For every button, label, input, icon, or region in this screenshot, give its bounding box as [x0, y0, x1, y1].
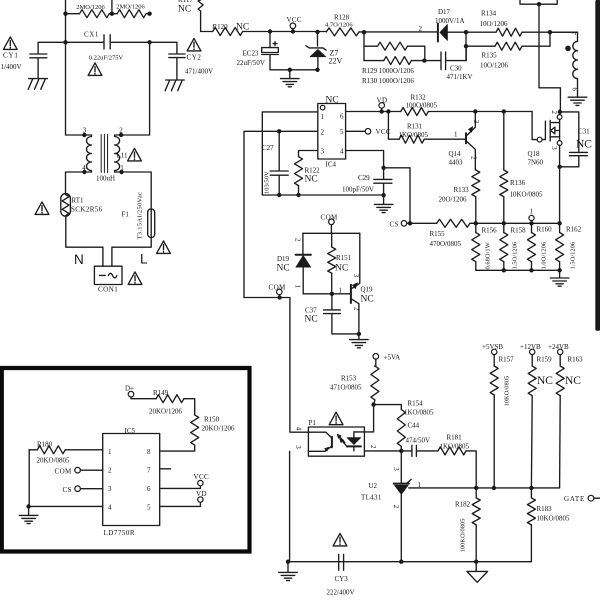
svg-text:C30: C30 — [450, 65, 462, 73]
wire right column to L11 pin2 — [121, 42, 150, 135]
capacitor CX1 — [66, 35, 150, 49]
svg-text:VCC: VCC — [287, 16, 302, 24]
svg-text:4: 4 — [82, 164, 86, 172]
warning triangle CY1 — [3, 37, 17, 50]
svg-text:20KO/1206: 20KO/1206 — [149, 408, 183, 416]
svg-text:0.22uF/275V: 0.22uF/275V — [89, 55, 124, 62]
wire COM to P1 pin4 — [244, 298, 308, 433]
svg-text:D19: D19 — [277, 255, 290, 263]
wire D19 bottom row — [303, 293, 350, 295]
svg-text:R159: R159 — [537, 356, 553, 364]
svg-text:NC: NC — [361, 295, 374, 305]
wire bottom bus — [288, 561, 531, 563]
resistor R180 20KO/0805 — [29, 449, 37, 451]
ground (earth) bottom left — [287, 562, 289, 573]
capacitor CY2 — [150, 42, 185, 80]
svg-text:CX1: CX1 — [84, 31, 99, 39]
svg-text:CY3: CY3 — [335, 575, 349, 583]
svg-text:R153: R153 — [341, 375, 357, 383]
svg-text:100O/0805: 100O/0805 — [406, 102, 438, 110]
svg-text:EC23: EC23 — [243, 50, 259, 58]
ground (slanted) CY1 — [28, 79, 47, 90]
warning triangle CY3 — [333, 533, 347, 546]
ground (earth) under C29 — [383, 195, 385, 204]
svg-text:VD: VD — [196, 490, 207, 498]
capacitor C29 100pF/50V + pin4 wire — [346, 151, 384, 168]
svg-text:T3.15AI/250Vac: T3.15AI/250Vac — [137, 192, 144, 240]
svg-text:R134: R134 — [481, 10, 497, 18]
capacitor CY1 — [30, 42, 66, 78]
svg-text:R151: R151 — [336, 254, 352, 262]
resistor R154 1KO/0805 — [374, 405, 402, 410]
current sense bus — [476, 222, 560, 224]
resistor R162 1.5O/1206 — [559, 223, 561, 232]
svg-text:R160: R160 — [537, 226, 553, 234]
transistor Q19 NC — [350, 285, 352, 303]
svg-text:VCC: VCC — [194, 473, 210, 481]
primary winding stub (cut at top) — [520, 0, 557, 4]
warning triangle RT1 — [35, 202, 49, 215]
svg-text:1KO/0805: 1KO/0805 — [404, 409, 434, 417]
node COM (top) — [329, 219, 335, 225]
svg-text:R150: R150 — [204, 416, 220, 424]
wire RT1 to CON1 left pin — [66, 216, 103, 266]
node CS — [401, 221, 407, 227]
svg-text:2: 2 — [108, 467, 112, 475]
ground (earth) sense bus — [559, 270, 561, 278]
wire left column top — [65, 0, 67, 42]
capacitor C27 103/50V — [270, 131, 288, 195]
svg-text:VD: VD — [377, 97, 388, 105]
svg-text:R180: R180 — [37, 441, 53, 449]
transistor Q14 4403 — [465, 133, 467, 143]
junction dots 2MO row — [63, 12, 67, 16]
svg-text:Q14: Q14 — [449, 150, 462, 158]
svg-text:C37: C37 — [305, 307, 317, 315]
svg-text:1000V/1A: 1000V/1A — [435, 17, 465, 25]
resistor (cut at top) NC — [198, 0, 203, 32]
svg-text:IC5: IC5 — [125, 427, 136, 435]
svg-text:5: 5 — [147, 504, 151, 512]
wire R153 to LED anode — [354, 405, 374, 432]
svg-text:CY2: CY2 — [187, 54, 202, 62]
svg-text:10KO/0805: 10KO/0805 — [504, 376, 511, 407]
svg-text:2: 2 — [369, 445, 377, 449]
svg-text:R132: R132 — [411, 94, 427, 102]
svg-text:3: 3 — [108, 485, 112, 493]
diode D19 NC — [302, 233, 304, 254]
wire pin5 to node VD — [160, 502, 201, 506]
resistor R135 10O/1206 — [466, 32, 550, 60]
svg-text:1.5O/1206: 1.5O/1206 — [512, 241, 519, 269]
ground (earth) IC5 — [28, 506, 30, 515]
svg-text:R128: R128 — [334, 14, 350, 22]
wire TL431 ref bus — [409, 487, 560, 489]
svg-text:P1: P1 — [309, 419, 317, 427]
wire IC4 pin6 to VD row — [346, 111, 401, 113]
wire IC4 pin1 — [262, 112, 318, 195]
svg-text:COM: COM — [321, 214, 339, 222]
svg-text:R181: R181 — [447, 434, 463, 442]
svg-text:1: 1 — [108, 448, 112, 456]
resistor R136 10KO/0805 — [503, 112, 505, 171]
wire IC4 pin3 + resistor R122 NC — [299, 151, 318, 157]
LED inside P1 — [347, 438, 361, 445]
warning triangle CON1 — [128, 272, 142, 285]
svg-text:1: 1 — [321, 113, 325, 121]
wire pin6 to node VCC — [160, 486, 201, 489]
svg-text:RT1: RT1 — [72, 197, 85, 205]
svg-text:GATE: GATE — [564, 495, 585, 503]
node VD — [379, 103, 385, 109]
svg-text:R155: R155 — [430, 230, 446, 238]
resistor R156 0.68O/1W — [475, 223, 477, 232]
svg-text:2: 2 — [470, 156, 478, 160]
op-amp IC4 — [318, 104, 346, 160]
svg-text:3: 3 — [83, 127, 87, 135]
ground (slanted) CY2 — [165, 80, 184, 91]
resistor R134 10O/1206 — [466, 31, 578, 33]
detail box frame — [2, 368, 250, 552]
diode D17 1000V/1A — [437, 24, 439, 42]
svg-text:4.7O/1206: 4.7O/1206 — [325, 22, 353, 29]
wire pin7 stub — [160, 468, 171, 470]
svg-text:LD7750R: LD7750R — [104, 529, 136, 537]
svg-text:R182: R182 — [455, 501, 471, 509]
svg-text:CON1: CON1 — [98, 286, 118, 294]
svg-text:6: 6 — [147, 485, 151, 493]
svg-text:20KO/0805: 20KO/0805 — [37, 457, 71, 465]
wire C29 top to CS node — [384, 168, 410, 224]
svg-text:R157: R157 — [499, 356, 515, 364]
svg-text:C44: C44 — [408, 422, 420, 430]
svg-text:3: 3 — [321, 148, 325, 156]
svg-text:L: L — [140, 252, 148, 267]
resistor R155 470O/0805 — [410, 222, 437, 224]
capacitor C30 471/1KV — [424, 46, 466, 69]
svg-text:R158: R158 — [511, 227, 527, 235]
wire L11 pin4 to RT1 — [66, 172, 85, 194]
capacitor CY3 222/400V — [339, 554, 344, 570]
svg-text:R156: R156 — [482, 227, 498, 235]
svg-text:222/400V: 222/400V — [327, 589, 355, 597]
ground (earth) aux winding — [568, 97, 587, 105]
svg-text:R133: R133 — [454, 186, 470, 194]
svg-text:R136: R136 — [510, 179, 526, 187]
svg-text:2: 2 — [352, 307, 360, 311]
svg-text:R117: R117 — [178, 0, 193, 4]
svg-text:R131: R131 — [407, 123, 423, 131]
svg-text:2: 2 — [392, 505, 400, 509]
svg-text:U2: U2 — [369, 482, 378, 490]
svg-text:R135: R135 — [482, 52, 498, 60]
thermistor RT1 — [61, 194, 71, 217]
svg-text:4: 4 — [295, 427, 303, 431]
capacitor EC23 — [262, 32, 279, 70]
wire VCC row — [270, 31, 326, 33]
svg-text:471/1KV: 471/1KV — [447, 73, 473, 81]
svg-text:2: 2 — [294, 238, 302, 242]
node pin 1 marker on bus — [529, 215, 534, 220]
svg-text:471O/0805: 471O/0805 — [330, 384, 362, 392]
svg-text:1.5O/1206: 1.5O/1206 — [570, 241, 577, 269]
ground (earth) below EC23 — [289, 70, 291, 79]
resistor R131 1KO/0805 — [388, 112, 399, 140]
svg-text:1: 1 — [294, 285, 302, 289]
svg-text:7N60: 7N60 — [528, 159, 544, 167]
svg-text:NC: NC — [305, 175, 318, 185]
resistor R132 100O/0805 — [401, 108, 429, 116]
ground (earth) Q19 — [358, 334, 360, 340]
svg-text:1: 1 — [454, 131, 458, 139]
capacitor C44 474/50V — [412, 445, 438, 456]
svg-text:1/400V: 1/400V — [1, 63, 22, 71]
svg-text:Q19: Q19 — [361, 286, 374, 294]
svg-text:R183: R183 — [537, 505, 553, 513]
resistor R151 NC — [331, 233, 333, 247]
svg-text:NC: NC — [178, 5, 191, 15]
resistor R149 20KO/1206 — [156, 395, 184, 403]
svg-text:2MO/1206: 2MO/1206 — [76, 4, 105, 11]
svg-text:CY1: CY1 — [3, 52, 19, 60]
resistor R133 20O/1206 — [472, 170, 480, 197]
junction dots CX1 row — [63, 40, 67, 44]
svg-text:1: 1 — [339, 287, 343, 295]
svg-text:SCK2R56: SCK2R56 — [71, 206, 103, 214]
svg-text:NC: NC — [335, 264, 348, 274]
warning triangle F1 — [157, 241, 171, 254]
resistor R150 20KO/1206 — [191, 415, 199, 445]
shunt regulator U2 TL431 — [400, 451, 402, 484]
svg-text:L11: L11 — [117, 152, 129, 160]
wire R180 to pin4 — [28, 450, 103, 507]
optocoupler P1 — [308, 427, 364, 456]
svg-text:NC: NC — [576, 139, 592, 151]
svg-text:10KO/0805: 10KO/0805 — [510, 191, 544, 199]
svg-text:IC4: IC4 — [326, 161, 337, 169]
resistor 2MO/1206 (second) — [112, 13, 150, 15]
svg-text:R163: R163 — [568, 356, 584, 364]
svg-text:474/50V: 474/50V — [406, 437, 431, 445]
svg-text:20O/1206: 20O/1206 — [439, 196, 468, 204]
light arrows — [339, 436, 345, 442]
svg-text:471/400V: 471/400V — [185, 68, 213, 76]
svg-text:NC: NC — [305, 315, 318, 325]
resistor 2MO/1206 (first) — [66, 13, 112, 15]
fuse F1 — [150, 209, 152, 238]
svg-text:4403: 4403 — [449, 159, 464, 167]
common-mode choke L11 — [84, 135, 121, 173]
svg-text:Q18: Q18 — [528, 150, 541, 158]
svg-text:100KO/0805: 100KO/0805 — [460, 519, 467, 553]
wire L11 pin1 to fuse — [122, 172, 152, 209]
svg-text:20KO/1206: 20KO/1206 — [202, 425, 236, 433]
wire P1 pin3 down — [289, 451, 291, 561]
svg-text:CS: CS — [63, 486, 72, 494]
svg-text:0.68O/1W: 0.68O/1W — [485, 241, 492, 269]
svg-text:2: 2 — [119, 127, 123, 135]
svg-text:R120: R120 — [213, 23, 229, 31]
svg-text:1: 1 — [530, 208, 534, 216]
svg-text:1KO/0805: 1KO/0805 — [399, 131, 429, 139]
svg-text:22V: 22V — [329, 57, 343, 66]
svg-text:C27: C27 — [262, 144, 274, 152]
wire center stub to 2MO junction — [111, 0, 113, 14]
resistor R181 1KO/0805 — [438, 447, 466, 455]
resistor R128 — [326, 28, 359, 36]
phototransistor inside P1 — [331, 437, 333, 448]
svg-text:3: 3 — [294, 445, 302, 449]
svg-text:NC: NC — [326, 96, 339, 106]
svg-text:103/50V: 103/50V — [264, 171, 271, 194]
resistor R182 100KO/0805 — [472, 498, 480, 525]
svg-text:2MO/1206: 2MO/1206 — [116, 3, 145, 10]
svg-text:8: 8 — [147, 448, 151, 456]
warning triangle P1 — [329, 412, 343, 425]
svg-text:C29: C29 — [358, 174, 370, 182]
svg-text:3: 3 — [352, 274, 360, 278]
svg-text:3: 3 — [392, 467, 400, 471]
node COM (left) — [277, 289, 283, 295]
ground (open triangle) under R182 — [475, 562, 477, 572]
svg-text:100uH: 100uH — [96, 175, 115, 183]
svg-text:1KO/0805: 1KO/0805 — [440, 443, 470, 451]
warning triangle L11 — [128, 148, 142, 161]
capacitor C37 NC — [324, 294, 359, 334]
svg-text:NC: NC — [277, 264, 290, 274]
svg-text:10O/1206: 10O/1206 — [480, 62, 509, 70]
wire VD row to gate corner — [475, 111, 532, 113]
svg-text:R149: R149 — [153, 389, 169, 397]
svg-text:NC: NC — [236, 23, 249, 33]
wire D19/R151/Q19 top — [303, 232, 360, 234]
resistor R120 — [201, 31, 270, 33]
svg-text:VCC: VCC — [376, 128, 391, 136]
svg-text:1.0O/1206: 1.0O/1206 — [541, 241, 548, 269]
svg-text:CS: CS — [390, 221, 399, 229]
svg-text:3: 3 — [550, 146, 558, 150]
wire IC4 pin2 — [244, 131, 318, 297]
resistor R129 1000O/1206 — [363, 32, 365, 60]
svg-text:TL431: TL431 — [361, 494, 382, 502]
svg-text:D17: D17 — [438, 8, 451, 16]
svg-text:5: 5 — [340, 128, 344, 136]
svg-text:100pF/50V: 100pF/50V — [342, 186, 374, 194]
IC U5 LD7750R — [103, 434, 160, 526]
wire ground bus under IC4 — [262, 194, 382, 196]
resistor R158 1.5O/1206 — [503, 223, 505, 232]
resistor R130 1000O/1206 — [364, 60, 425, 62]
wire EC23 to ground junction — [270, 69, 318, 71]
svg-text:+5VA: +5VA — [384, 354, 401, 362]
bottom bus of sense resistors — [476, 269, 560, 271]
svg-text:2: 2 — [550, 111, 558, 115]
transformer aux winding pins 7-6 — [550, 32, 578, 41]
connector CON1 — [94, 266, 122, 284]
svg-text:COM: COM — [269, 284, 287, 292]
wire IC4 pin5 + node VCC — [346, 130, 366, 132]
svg-text:4: 4 — [108, 504, 112, 512]
wire fuse to CON1 right pin — [112, 238, 151, 267]
svg-text:3: 3 — [472, 120, 480, 124]
resistor R183 10KO/0805 — [527, 498, 535, 525]
svg-text:R130 1000O/1206: R130 1000O/1206 — [362, 77, 414, 85]
svg-text:6: 6 — [340, 113, 344, 121]
svg-text:22uF/50V: 22uF/50V — [237, 59, 265, 67]
svg-text:NC: NC — [565, 375, 581, 387]
svg-text:4: 4 — [340, 148, 344, 156]
transistor Q18 7N60 (MOSFET) — [532, 110, 562, 223]
svg-text:470O/0805: 470O/0805 — [430, 240, 462, 248]
svg-text:R122: R122 — [305, 167, 321, 175]
svg-text:10O/1206: 10O/1206 — [480, 20, 509, 28]
svg-text:2: 2 — [321, 129, 325, 137]
svg-text:R162: R162 — [566, 226, 582, 234]
svg-text:2: 2 — [419, 25, 423, 33]
svg-text:7: 7 — [147, 467, 151, 475]
svg-text:R129 1000O/1206: R129 1000O/1206 — [362, 67, 414, 75]
svg-text:R154: R154 — [408, 400, 424, 408]
svg-text:COM: COM — [55, 468, 73, 476]
svg-text:1: 1 — [120, 164, 124, 172]
svg-text:F1: F1 — [122, 211, 130, 219]
wire primary to Q18 drain — [539, 4, 560, 110]
wire left column to L11 pin3 — [66, 42, 85, 135]
warning triangle CY2 — [187, 38, 201, 51]
capacitor C31 NC — [560, 112, 588, 167]
resistor R153 471O/0805 + node +5VA — [373, 354, 379, 360]
right edge bar — [596, 0, 600, 331]
svg-text:C31: C31 — [578, 128, 590, 136]
svg-text:N: N — [74, 252, 84, 267]
wire P1 pin2 row — [364, 450, 412, 452]
svg-text:10KO/0805: 10KO/0805 — [537, 515, 571, 523]
resistor R160 1.0O/1206 — [531, 223, 533, 232]
zener Z7 22V — [317, 32, 319, 46]
svg-text:NC: NC — [537, 375, 553, 387]
node VCC — [290, 23, 296, 29]
svg-text:7: 7 — [569, 32, 577, 36]
warning triangle below CX1 value — [88, 63, 102, 76]
